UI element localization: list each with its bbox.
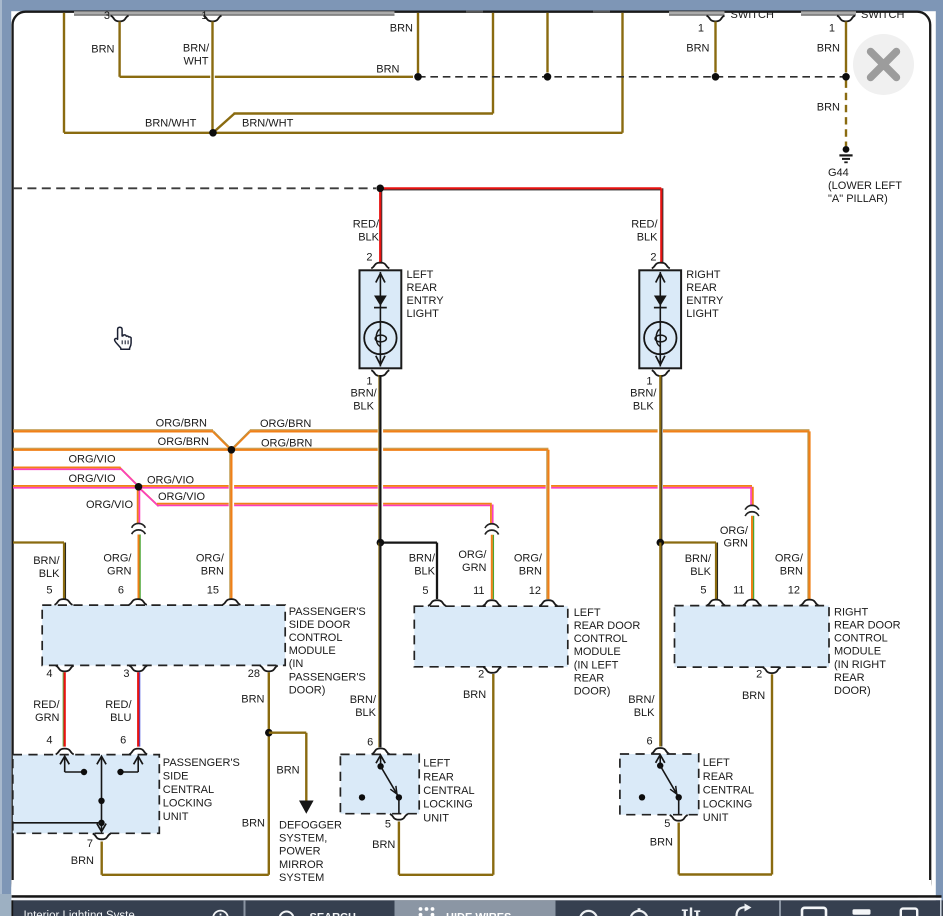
- unit U1 pin 6: [129, 749, 147, 755]
- window left strip bottom light: [0, 894, 11, 916]
- svg-text:LOCKING: LOCKING: [703, 798, 753, 810]
- svg-text:BRN/: BRN/: [33, 555, 60, 567]
- unit U2 switch symbol: [380, 756, 382, 767]
- wire RED/GRN module pin 4 to locking pin 4: [62, 672, 64, 746]
- junction node G: [228, 446, 236, 454]
- lamp L2 bulb: [644, 322, 676, 354]
- svg-text:3: 3: [123, 668, 129, 680]
- lamp L1 LEFT REAR ENTRY LIGHT box: [360, 270, 402, 368]
- inline connector at x492: [485, 524, 499, 528]
- lamp L1 down arrow: [376, 356, 385, 365]
- module M3 pin 2: [763, 667, 781, 673]
- svg-text:LEFT: LEFT: [423, 758, 450, 770]
- wire BRN/WHT from pin 1 down: [210, 60, 215, 90]
- right entry light pin 1: [652, 370, 670, 376]
- lamp L1 up arrow: [376, 274, 385, 283]
- svg-text:ORG/BRN: ORG/BRN: [158, 436, 209, 448]
- svg-text:"A" PILLAR): "A" PILLAR): [828, 193, 888, 205]
- wire ORG/VIO node H drop to connector: [138, 487, 140, 523]
- window right strip: [936, 0, 943, 916]
- wire ORG/BRN line2 y450 right to x548 riser: [231, 447, 548, 449]
- svg-text:6: 6: [367, 737, 373, 749]
- module M1 pin 6: [129, 599, 147, 605]
- junction node H: [135, 483, 143, 491]
- pin 1 of switch 2: [837, 16, 855, 22]
- wire ORG/VIO riser to connector at x752: [750, 487, 752, 505]
- unit U1 actuator symbol: [64, 758, 66, 773]
- svg-text:WHT: WHT: [183, 56, 208, 68]
- svg-text:SWITCH: SWITCH: [861, 9, 904, 21]
- svg-text:DOOR): DOOR): [834, 685, 871, 697]
- junction node F: [376, 185, 384, 193]
- svg-text:BRN: BRN: [519, 566, 542, 578]
- diagonal ORG/VIO out of node H: [139, 488, 157, 505]
- wire ORG/BRN line2 y450 left: [13, 447, 231, 449]
- toolbar separator 1: [244, 900, 246, 916]
- defogger system arrow: [299, 801, 314, 814]
- junction node B: [414, 73, 422, 81]
- module M1 pin 4: [56, 666, 74, 672]
- cut label fragment WHT left: [466, 11, 483, 13]
- svg-text:BRN: BRN: [91, 44, 114, 56]
- wire BRN/BLK left light drop to middle locking unit pin 6: [378, 543, 380, 748]
- svg-text:REAR: REAR: [574, 672, 605, 684]
- pin 3 of top connector: [111, 16, 129, 22]
- svg-text:ORG/: ORG/: [775, 553, 804, 565]
- svg-text:DOOR): DOOR): [289, 684, 326, 696]
- svg-text:LIGHT: LIGHT: [686, 308, 719, 320]
- wire ORG/BRN line1 y431 right then riser x809 to pin 12: [250, 429, 810, 431]
- toolbar clock icon: [630, 911, 647, 921]
- wire BRN module pin 28 down: [268, 672, 270, 875]
- svg-text:MODULE: MODULE: [834, 646, 881, 658]
- unit U1 pin 4: [56, 749, 74, 755]
- svg-text:LOCKING: LOCKING: [163, 797, 213, 809]
- wire RED/BLK drop to left light: [381, 188, 383, 263]
- toolbar monitor icon: [802, 908, 826, 920]
- svg-text:SYSTEM,: SYSTEM,: [279, 833, 327, 845]
- svg-text:SWITCH: SWITCH: [731, 9, 774, 21]
- svg-text:BLK: BLK: [637, 232, 658, 244]
- junction node J: [657, 539, 665, 547]
- svg-text:BLK: BLK: [414, 566, 435, 578]
- wire ORG/BRN riser to RIGHT module pin 12: [807, 431, 809, 599]
- svg-text:BLK: BLK: [358, 232, 379, 244]
- svg-text:BLK: BLK: [633, 400, 654, 412]
- svg-text:BRN: BRN: [71, 855, 94, 867]
- pin 1 of top connector: [204, 16, 222, 22]
- svg-text:ORG/: ORG/: [196, 553, 225, 565]
- svg-text:(LOWER LEFT: (LOWER LEFT: [828, 180, 902, 192]
- unit U3 pin 5: [670, 815, 688, 821]
- svg-text:BRN/: BRN/: [685, 553, 712, 565]
- switch box 2 (cut off): [801, 11, 856, 15]
- svg-text:UNIT: UNIT: [163, 811, 189, 823]
- lamp L2 diode: [654, 296, 667, 307]
- toolbar search icon: [280, 912, 294, 921]
- toolbar doc icon: [901, 909, 917, 921]
- toolbar zoom icon: [580, 911, 597, 921]
- svg-text:LIGHT: LIGHT: [407, 308, 440, 320]
- close button: [853, 34, 914, 95]
- wire ORG/BRN riser to LEFT module pin 12: [546, 460, 551, 540]
- svg-text:ORG/: ORG/: [720, 525, 749, 537]
- module M2 LEFT REAR DOOR CONTROL MODULE box: [414, 606, 568, 667]
- svg-text:GRN: GRN: [107, 566, 132, 578]
- wire ORG/VIO line y504: [157, 504, 492, 506]
- module M1 PASSENGER'S SIDE DOOR CONTROL MODULE box: [42, 605, 285, 665]
- dashed black bus y77: [418, 76, 846, 78]
- svg-text:BRN/: BRN/: [628, 694, 655, 706]
- svg-text:REAR: REAR: [423, 771, 454, 783]
- wire BRN horizontal y77 to junction: [120, 76, 413, 78]
- wire RED/BLK drop to right light: [662, 188, 664, 263]
- wire BRN horizontal y133 left segment: [64, 132, 213, 134]
- svg-text:MIRROR: MIRROR: [279, 859, 324, 871]
- lamp L1 internal shaft: [379, 272, 381, 367]
- svg-text:BLU: BLU: [110, 712, 131, 724]
- lamp L1 bulb: [364, 322, 396, 354]
- wire ORG/GRN to LEFT module pin 11: [492, 535, 494, 599]
- svg-text:5: 5: [700, 585, 706, 597]
- wire BRN/BLK branch to LEFT module pin 5: [380, 541, 437, 543]
- module M2 pin 2: [483, 667, 501, 673]
- module M1 pin 3: [129, 666, 147, 672]
- svg-text:6: 6: [646, 735, 652, 747]
- svg-text:LEFT: LEFT: [703, 757, 730, 769]
- left entry light pin 2: [371, 263, 389, 269]
- svg-text:3: 3: [104, 10, 110, 22]
- svg-text:PASSENGER'S: PASSENGER'S: [289, 671, 366, 683]
- lamp L1 diode: [374, 296, 387, 307]
- svg-text:5: 5: [385, 818, 391, 830]
- svg-text:2: 2: [478, 669, 484, 681]
- wire ORG/BRN from node G to passenger module pin 15: [229, 458, 234, 540]
- svg-text:ENTRY: ENTRY: [686, 295, 724, 307]
- svg-text:ORG/BRN: ORG/BRN: [260, 418, 311, 430]
- svg-text:LEFT: LEFT: [574, 607, 601, 619]
- svg-text:RIGHT: RIGHT: [686, 269, 721, 281]
- svg-text:1: 1: [829, 23, 835, 35]
- svg-text:SYSTEM: SYSTEM: [279, 872, 324, 884]
- lamp L2 down arrow: [656, 356, 665, 365]
- svg-text:MODULE: MODULE: [289, 645, 336, 657]
- module M1 pin 28: [260, 666, 278, 672]
- svg-text:BRN: BRN: [390, 23, 413, 35]
- toolbar info icon: [213, 911, 228, 921]
- svg-text:ORG/BRN: ORG/BRN: [261, 438, 312, 450]
- svg-text:HIDE WIRES: HIDE WIRES: [446, 912, 511, 917]
- svg-text:PASSENGER'S: PASSENGER'S: [163, 757, 240, 769]
- svg-text:4: 4: [46, 668, 52, 680]
- wire ORG/GRN to RIGHT module pin 11: [753, 516, 755, 599]
- wire RED/BLK horizontal y188: [380, 189, 661, 191]
- svg-text:CONTROL: CONTROL: [289, 632, 343, 644]
- svg-text:BLK: BLK: [353, 400, 374, 412]
- svg-text:11: 11: [733, 585, 744, 597]
- wire ORG/VIO line y487: [13, 487, 752, 489]
- svg-text:BLK: BLK: [634, 707, 655, 719]
- module M3 pin 5: [707, 600, 725, 606]
- unit U2 LEFT REAR CENTRAL LOCKING UNIT box: [340, 754, 419, 813]
- svg-text:12: 12: [788, 585, 800, 597]
- svg-text:BRN: BRN: [817, 43, 840, 55]
- svg-text:4: 4: [46, 734, 52, 746]
- inline connector at x138: [132, 523, 146, 527]
- wire BRN vertical x547 from top: [546, 13, 548, 73]
- svg-text:RIGHT: RIGHT: [834, 606, 869, 618]
- diagonal ORG/BRN into node G: [213, 432, 231, 450]
- svg-text:GRN: GRN: [462, 562, 487, 574]
- svg-text:RED/: RED/: [353, 219, 380, 231]
- window top bar: [0, 0, 943, 11]
- svg-text:REAR DOOR: REAR DOOR: [574, 620, 641, 632]
- svg-text:BRN: BRN: [817, 102, 840, 114]
- pin 1 of switch 1: [707, 16, 725, 22]
- module M3 RIGHT REAR DOOR CONTROL MODULE box: [675, 606, 830, 668]
- svg-text:BRN/WHT: BRN/WHT: [242, 118, 294, 130]
- svg-text:BLK: BLK: [355, 707, 376, 719]
- svg-text:BRN: BRN: [241, 694, 264, 706]
- unit U1 pin 7: [93, 834, 111, 840]
- svg-text:UNIT: UNIT: [703, 812, 729, 824]
- wire RED/BLU module pin 3 to locking pin 6: [139, 672, 141, 746]
- svg-text:(IN LEFT: (IN LEFT: [574, 659, 619, 671]
- left entry light pin 1: [371, 370, 389, 376]
- svg-text:REAR DOOR: REAR DOOR: [834, 620, 901, 632]
- svg-text:BRN/: BRN/: [630, 387, 657, 399]
- svg-text:15: 15: [207, 585, 219, 597]
- lamp L2 internal shaft: [659, 272, 661, 367]
- svg-text:PASSENGER'S: PASSENGER'S: [289, 606, 366, 618]
- unit U3 switch symbol: [659, 755, 661, 766]
- lamp L2 RIGHT REAR ENTRY LIGHT box: [639, 270, 681, 368]
- svg-text:7: 7: [87, 838, 93, 850]
- window left strip: [0, 0, 11, 916]
- svg-text:LEFT: LEFT: [407, 269, 434, 281]
- svg-text:SEARCH: SEARCH: [310, 912, 357, 916]
- svg-text:CONTROL: CONTROL: [574, 633, 628, 645]
- svg-text:RED/: RED/: [105, 699, 132, 711]
- svg-text:BRN: BRN: [201, 566, 224, 578]
- svg-text:1: 1: [698, 23, 704, 35]
- junction node A: [209, 129, 217, 137]
- toolbar printer icon: [853, 909, 871, 915]
- svg-text:BRN/: BRN/: [183, 43, 210, 55]
- svg-text:(IN: (IN: [289, 658, 304, 670]
- svg-text:BRN/: BRN/: [409, 553, 436, 565]
- toolbar bar: [13, 900, 940, 916]
- right entry light pin 2: [652, 263, 670, 269]
- svg-text:6: 6: [118, 585, 124, 597]
- svg-text:BRN/WHT: BRN/WHT: [145, 118, 197, 130]
- wire BRN vertical from top at x64: [63, 13, 65, 133]
- wire ORG/BRN line1 y431 left: [13, 429, 213, 431]
- diagonal ORG/BRN out of node G: [232, 432, 250, 450]
- svg-text:LOCKING: LOCKING: [423, 799, 473, 811]
- svg-text:BLK: BLK: [39, 568, 60, 580]
- svg-text:SIDE: SIDE: [163, 770, 189, 782]
- svg-text:Interior Lighting Syste...: Interior Lighting Syste...: [24, 910, 145, 916]
- mouse hand cursor: [114, 327, 131, 349]
- svg-text:BRN: BRN: [780, 566, 803, 578]
- svg-text:ORG/VIO: ORG/VIO: [86, 499, 134, 511]
- diagonal jog at junction A: [212, 114, 235, 134]
- wire BRN bottom left U: [102, 874, 269, 876]
- svg-text:CENTRAL: CENTRAL: [423, 785, 474, 797]
- unit U3 LEFT REAR CENTRAL LOCKING UNIT box: [620, 754, 699, 815]
- module M2 pin 5: [428, 600, 446, 606]
- module M1 pin 15: [222, 599, 240, 605]
- svg-text:RED/: RED/: [33, 699, 60, 711]
- unit U3 pin 6: [651, 748, 669, 754]
- svg-text:12: 12: [529, 585, 541, 597]
- svg-text:ORG/VIO: ORG/VIO: [68, 454, 116, 466]
- wire BRN vertical x418 from top: [417, 13, 419, 73]
- toolbar right edge light line: [940, 900, 942, 916]
- svg-text:CONTROL: CONTROL: [834, 633, 888, 645]
- wire BRN/WHT y133 junction to x622 riser: [213, 132, 623, 134]
- dashed BRN wire to ground: [845, 81, 847, 147]
- connector box (cut off, top left): [74, 11, 395, 15]
- dashed gray line y188: [13, 187, 376, 189]
- wire BRN/BLK passenger module pin 5 feed: [13, 541, 64, 543]
- unit U2 pin 5: [390, 814, 408, 820]
- junction node E: [842, 73, 850, 81]
- svg-text:5: 5: [664, 818, 670, 830]
- ground G44 symbol: [843, 146, 850, 153]
- toolbar filter icon: [684, 911, 686, 917]
- svg-text:ENTRY: ENTRY: [407, 295, 445, 307]
- junction node I: [377, 539, 385, 547]
- junction node D: [712, 73, 720, 81]
- junction node K: [265, 729, 273, 737]
- svg-text:CENTRAL: CENTRAL: [163, 784, 214, 796]
- wire ORG/VIO riser to connector at x492: [492, 505, 494, 524]
- lamp L2 up arrow: [656, 274, 665, 283]
- svg-text:2: 2: [366, 252, 372, 264]
- wire BRN/BLK branch to RIGHT module pin 5: [660, 541, 716, 543]
- wire BRN/BLK right light to locking unit pin 6: [661, 543, 663, 747]
- svg-text:BRN/: BRN/: [350, 387, 377, 399]
- module M3 pin 12: [801, 600, 819, 606]
- svg-text:5: 5: [46, 585, 52, 597]
- switch box 1 (cut off): [669, 11, 725, 15]
- wire BRN branch to defogger: [269, 732, 307, 734]
- svg-text:BRN: BRN: [686, 43, 709, 55]
- svg-text:ORG/VIO: ORG/VIO: [68, 473, 116, 485]
- toolbar separator 2: [779, 900, 781, 916]
- svg-text:UNIT: UNIT: [423, 812, 449, 824]
- wire ORG/VIO line y468 left: [13, 468, 121, 470]
- svg-text:BRN/: BRN/: [350, 694, 377, 706]
- svg-text:G44: G44: [828, 167, 849, 179]
- svg-text:MODULE: MODULE: [574, 646, 621, 658]
- svg-text:ORG/: ORG/: [458, 549, 487, 561]
- unit U1 PASSENGER'S SIDE CENTRAL LOCKING UNIT box: [13, 755, 160, 834]
- svg-text:RED/: RED/: [631, 219, 658, 231]
- svg-text:1: 1: [366, 375, 372, 387]
- svg-text:REAR: REAR: [703, 771, 734, 783]
- svg-text:BLK: BLK: [690, 566, 711, 578]
- svg-text:ORG/VIO: ORG/VIO: [158, 491, 206, 503]
- module M3 pin 11: [743, 600, 761, 606]
- svg-text:ORG/: ORG/: [514, 553, 543, 565]
- svg-text:CENTRAL: CENTRAL: [703, 785, 754, 797]
- module M2 pin 12: [539, 600, 557, 606]
- svg-text:ORG/: ORG/: [103, 553, 132, 565]
- svg-text:GRN: GRN: [724, 537, 749, 549]
- svg-text:6: 6: [120, 734, 126, 746]
- svg-text:11: 11: [473, 585, 484, 597]
- wire BRN/BLK right light drop: [658, 415, 663, 530]
- svg-text:ORG/BRN: ORG/BRN: [156, 418, 207, 430]
- svg-text:2: 2: [756, 669, 762, 681]
- wire ORG/GRN to passenger module pin 6: [139, 535, 141, 600]
- toolbar top black line: [12, 895, 942, 898]
- svg-text:28: 28: [248, 668, 260, 680]
- svg-text:BRN: BRN: [463, 689, 486, 701]
- module M1 pin 5: [55, 599, 73, 605]
- cut label fragment WHT right: [593, 11, 610, 13]
- svg-text:POWER: POWER: [279, 846, 321, 858]
- module M2 pin 11: [483, 600, 501, 606]
- svg-text:ORG/VIO: ORG/VIO: [147, 474, 195, 486]
- svg-text:GRN: GRN: [35, 712, 60, 724]
- svg-text:BRN: BRN: [242, 818, 265, 830]
- wire BRN from pin 3 down: [118, 22, 120, 77]
- wire BRN/WHT y113 to x493 riser: [234, 112, 494, 114]
- svg-text:BRN: BRN: [372, 839, 395, 851]
- svg-text:(IN RIGHT: (IN RIGHT: [834, 659, 886, 671]
- svg-text:BRN: BRN: [742, 690, 765, 702]
- svg-text:DEFOGGER: DEFOGGER: [279, 820, 342, 832]
- svg-text:1: 1: [201, 10, 207, 22]
- svg-text:5: 5: [422, 585, 428, 597]
- wire BRN/BLK left light drop: [378, 415, 383, 530]
- svg-text:1: 1: [646, 375, 652, 387]
- toolbar share icon: [737, 907, 747, 916]
- svg-text:SIDE DOOR: SIDE DOOR: [289, 619, 351, 631]
- svg-text:DOOR): DOOR): [574, 686, 611, 698]
- inline connector at x752: [745, 505, 759, 509]
- toolbar top white line: [12, 898, 942, 901]
- unit U2 pin 6: [372, 748, 390, 754]
- toolbar HIDE WIRES segment: [395, 900, 556, 916]
- junction node C: [544, 73, 552, 81]
- svg-text:BRN: BRN: [276, 765, 299, 777]
- svg-text:BRN: BRN: [376, 64, 399, 76]
- svg-text:REAR: REAR: [686, 282, 717, 294]
- svg-text:REAR: REAR: [834, 672, 865, 684]
- svg-text:2: 2: [650, 252, 656, 264]
- svg-text:REAR: REAR: [407, 282, 438, 294]
- svg-text:BRN: BRN: [650, 836, 673, 848]
- toolbar hide-wires icon: [419, 907, 423, 911]
- diagonal ORG/VIO into node H: [120, 467, 138, 485]
